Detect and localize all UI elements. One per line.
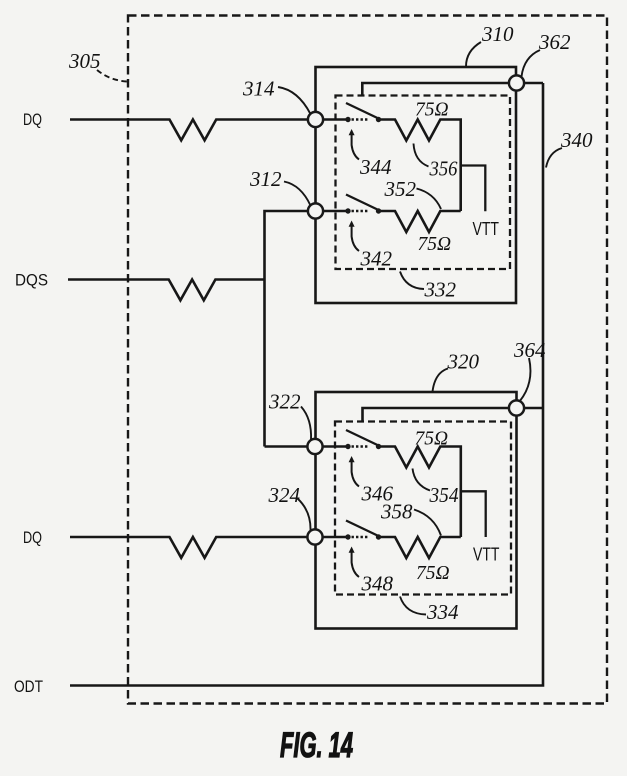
svg-text:348: 348 [361,572,394,596]
svg-text:356: 356 [429,157,458,181]
svg-text:ODT: ODT [14,677,43,696]
svg-text:344: 344 [359,155,392,179]
svg-text:75Ω: 75Ω [415,429,449,450]
svg-text:310: 310 [481,22,514,46]
svg-text:DQ: DQ [23,110,42,129]
svg-text:354: 354 [429,483,459,507]
svg-text:364: 364 [513,338,546,362]
svg-text:VTT: VTT [473,544,500,565]
svg-text:362: 362 [538,30,571,54]
svg-text:342: 342 [360,247,393,271]
svg-text:324: 324 [268,483,301,507]
svg-text:358: 358 [380,500,413,524]
svg-text:312: 312 [249,167,282,191]
svg-text:332: 332 [424,278,457,302]
svg-text:VTT: VTT [473,218,500,239]
svg-text:334: 334 [426,600,459,624]
svg-text:FIG. 14: FIG. 14 [280,726,353,765]
svg-text:322: 322 [268,390,301,414]
svg-text:314: 314 [242,77,275,101]
svg-text:DQS: DQS [15,271,48,290]
svg-text:305: 305 [68,49,101,73]
svg-text:340: 340 [560,128,593,152]
svg-text:75Ω: 75Ω [416,563,450,584]
svg-text:75Ω: 75Ω [415,100,449,121]
svg-text:352: 352 [384,177,417,201]
svg-text:75Ω: 75Ω [418,234,452,255]
svg-text:320: 320 [447,350,480,374]
svg-text:DQ: DQ [23,528,42,547]
